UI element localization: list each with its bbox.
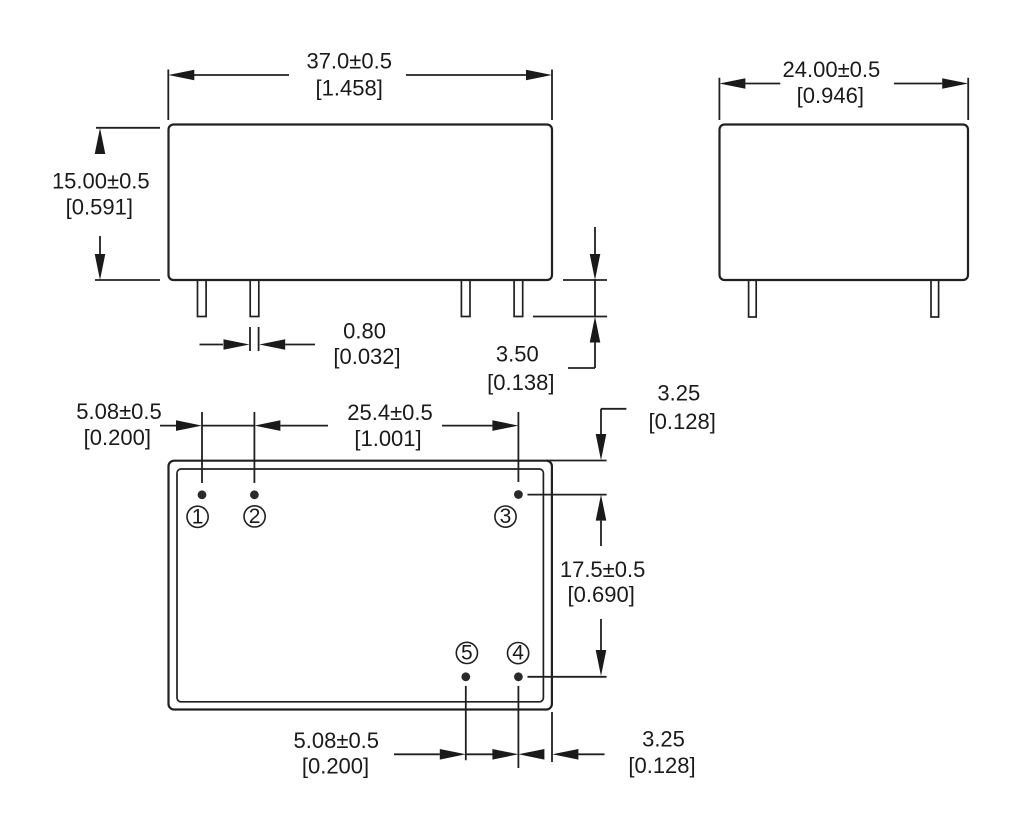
- pin label circle 5: [456, 642, 477, 663]
- svg-text:[1.001]: [1.001]: [354, 426, 421, 451]
- svg-text:[0.128]: [0.128]: [628, 753, 695, 778]
- svg-text:[0.032]: [0.032]: [333, 344, 400, 369]
- dimension 37.0 arrows: [168, 70, 552, 81]
- bottom dimension arrows: [440, 749, 579, 760]
- svg-text:3: 3: [500, 505, 512, 528]
- pin dot 3: [514, 490, 523, 499]
- svg-text:3.25: 3.25: [642, 727, 685, 752]
- dimension 3.50 ticks: [533, 280, 607, 317]
- svg-text:5: 5: [461, 642, 473, 665]
- dimension 3.50 arrows: [590, 254, 601, 343]
- svg-text:15.00±0.5: 15.00±0.5: [52, 168, 150, 193]
- pin label circle 3: [495, 506, 516, 527]
- dimension 17.5 arrows: [596, 495, 607, 676]
- bottom dimension extension lines: [466, 686, 552, 768]
- dimension 24.00 arrows: [719, 78, 968, 89]
- svg-text:17.5±0.5: 17.5±0.5: [560, 557, 645, 582]
- dimension 3.25 top leader: [601, 409, 626, 434]
- pin label circle 4: [507, 643, 528, 664]
- svg-text:3.50: 3.50: [496, 342, 539, 367]
- svg-text:[0.946]: [0.946]: [797, 83, 864, 108]
- pin dot 5: [461, 672, 470, 681]
- front pin 1: [198, 280, 207, 317]
- bottom top dimension extension lines: [202, 412, 518, 483]
- svg-text:25.4±0.5: 25.4±0.5: [347, 400, 432, 425]
- dimension 25.4 lines: [280, 425, 492, 427]
- svg-text:[0.200]: [0.200]: [302, 753, 369, 778]
- pin label circle 2: [244, 506, 265, 527]
- dimension 15.00 ticks: [95, 128, 160, 280]
- front pin 2: [250, 280, 259, 317]
- svg-text:4: 4: [512, 642, 524, 665]
- dimension 15.00 line: [99, 236, 101, 254]
- pin4 leader line: [528, 676, 607, 678]
- dimension 24.00 lines: [745, 83, 942, 85]
- svg-text:5.08±0.5: 5.08±0.5: [76, 399, 161, 424]
- svg-text:5.08±0.5: 5.08±0.5: [294, 728, 379, 753]
- bottom view outer body: [169, 461, 552, 710]
- pin dot 4: [514, 672, 523, 681]
- svg-text:24.00±0.5: 24.00±0.5: [783, 57, 881, 82]
- dimension 0.80 lines: [200, 344, 316, 346]
- rect top extension: [546, 460, 607, 462]
- bottom dimension lines: [394, 753, 605, 755]
- dimension 5.08 top line: [160, 425, 254, 427]
- pin label circle 1: [187, 506, 208, 527]
- pin3 leader line: [528, 494, 607, 496]
- dimension 24.00 extension lines: [719, 78, 968, 120]
- top dimension arrows: [176, 420, 518, 431]
- svg-text:0.80: 0.80: [343, 318, 386, 343]
- dimension 0.80 arrows: [224, 339, 286, 350]
- svg-text:[0.591]: [0.591]: [66, 194, 133, 219]
- pin dot 2: [250, 490, 259, 499]
- svg-text:[0.128]: [0.128]: [649, 409, 716, 434]
- dimension 0.80 extension lines: [250, 327, 259, 351]
- svg-text:37.0±0.5: 37.0±0.5: [306, 48, 391, 73]
- side pin right: [931, 280, 939, 317]
- front view body: [169, 125, 553, 281]
- dimension 37.0 line: [194, 74, 526, 76]
- dimension 3.25 top arrow: [596, 434, 607, 460]
- dimension 17.5 lines: [600, 521, 602, 650]
- dimension 15.00 arrows: [95, 128, 106, 280]
- front pin 4: [514, 280, 523, 317]
- side pin left: [749, 280, 757, 317]
- svg-text:3.25: 3.25: [657, 381, 700, 406]
- pin dot 1: [198, 490, 207, 499]
- side view body: [720, 125, 969, 281]
- svg-text:[0.200]: [0.200]: [84, 425, 151, 450]
- svg-text:[1.458]: [1.458]: [316, 76, 383, 101]
- bottom view inner outline: [177, 469, 543, 702]
- front pin 5: [461, 280, 470, 317]
- svg-text:1: 1: [192, 505, 204, 528]
- dimension 37.0 extension lines: [168, 70, 552, 121]
- svg-text:[0.138]: [0.138]: [487, 370, 554, 395]
- dimension 3.50 lines: [568, 227, 595, 368]
- svg-text:[0.690]: [0.690]: [568, 582, 635, 607]
- svg-text:2: 2: [249, 505, 261, 528]
